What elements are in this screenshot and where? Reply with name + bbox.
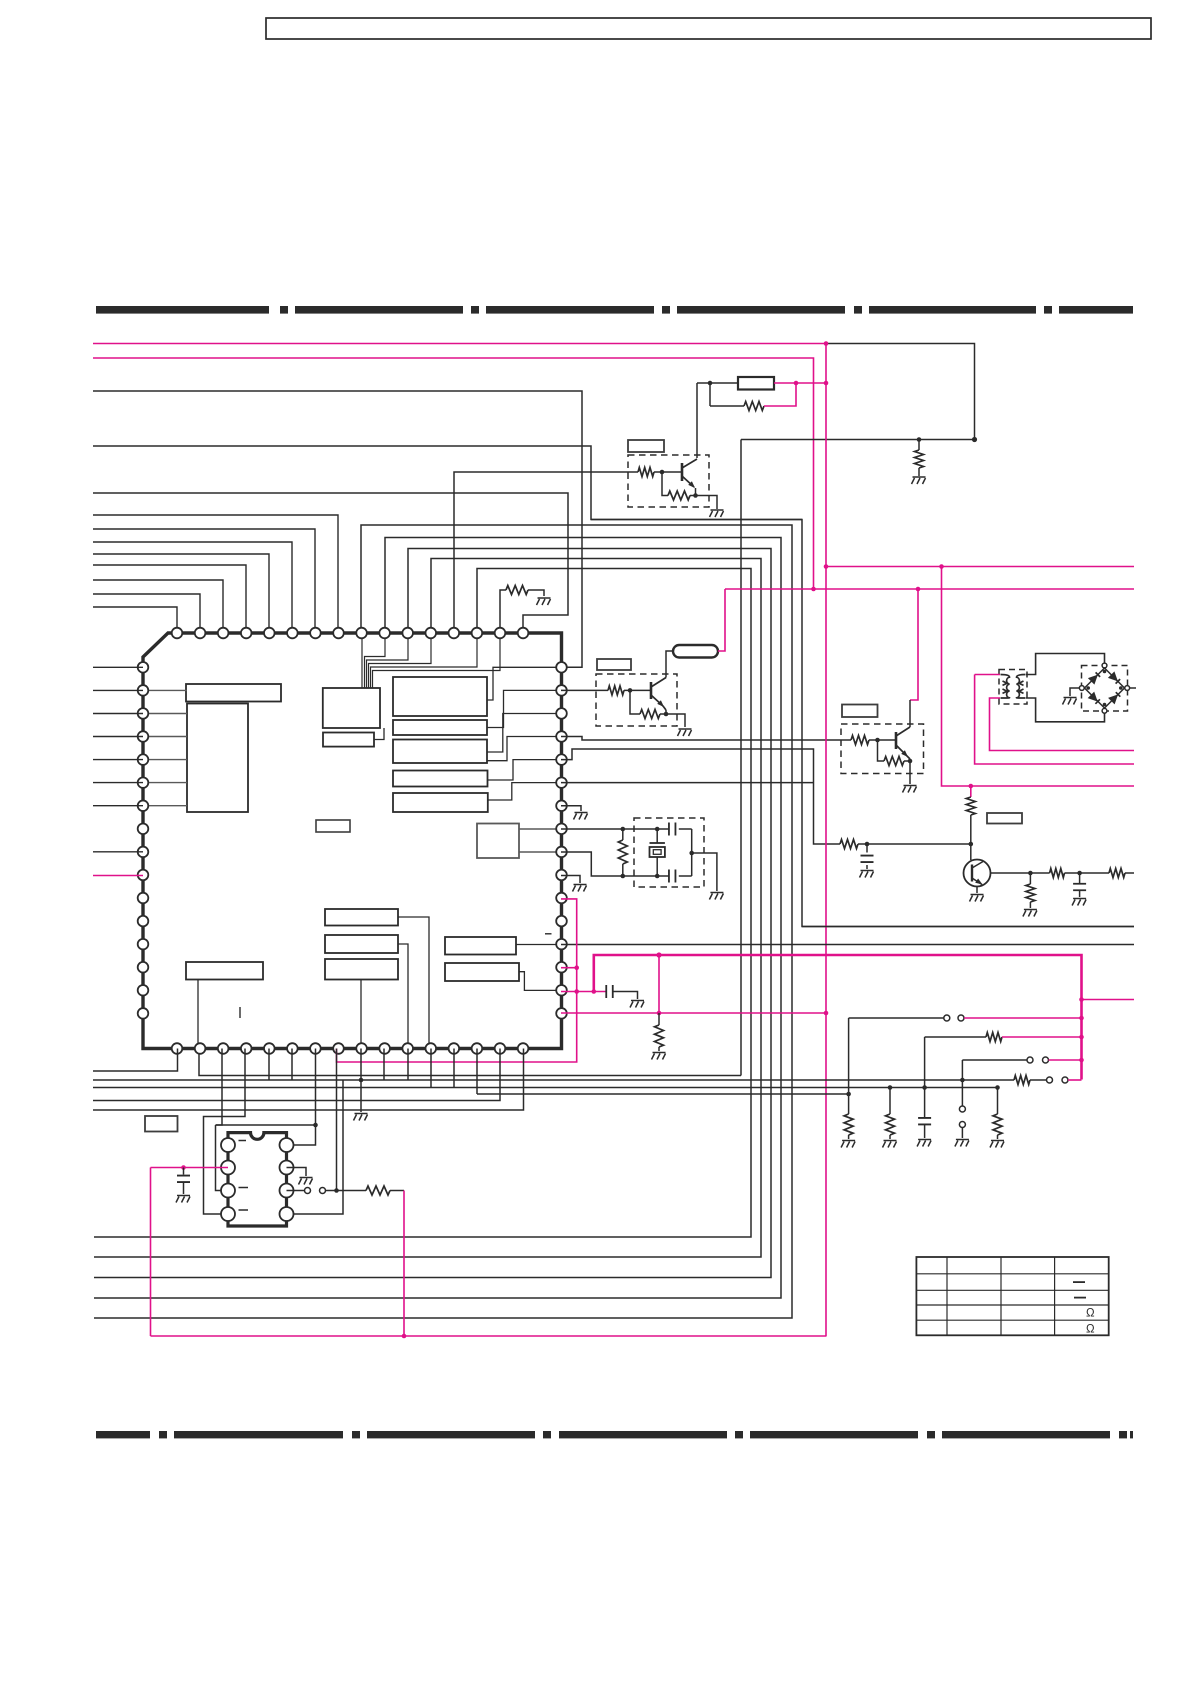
resistor Q3 base bbox=[851, 736, 869, 745]
ground bbox=[1063, 698, 1077, 705]
IC U2 DIP body bbox=[228, 1133, 287, 1226]
transistor Q3 dashed box bbox=[841, 724, 924, 774]
wire magenta parallel branch bbox=[764, 383, 796, 406]
U2 tick marks bbox=[239, 1140, 247, 1142]
ground bbox=[990, 1141, 1004, 1148]
U1 internal box upper-left bbox=[186, 684, 281, 702]
bridge diode D4 bbox=[1108, 694, 1118, 704]
wire left fan to top pin x223 bbox=[93, 580, 223, 633]
wire pin10R ground stub bbox=[561, 876, 580, 884]
transistor Q3 bbox=[895, 732, 898, 749]
resistor pull on pin16T area bbox=[500, 590, 506, 633]
wire pin9B stub down bbox=[383, 1049, 385, 1081]
wire magenta x659 drop bbox=[658, 955, 660, 1013]
wire pin7B to DIP pin R1 bbox=[287, 1049, 316, 1146]
capacitor output bbox=[1079, 873, 1081, 884]
label box Q4 bbox=[987, 813, 1022, 824]
wire left fan to top pin x246 bbox=[93, 565, 246, 633]
U1 internal lower boxes bbox=[325, 909, 398, 926]
U1 internal label box bbox=[316, 820, 350, 832]
ground bbox=[709, 893, 723, 900]
wire left fan to top pin x269 bbox=[93, 554, 269, 633]
U1 pins right column bbox=[556, 662, 567, 673]
wire magenta pin16R line bbox=[561, 1012, 826, 1014]
resistor Q4 collector bbox=[970, 786, 972, 797]
wire R-box left lead bbox=[697, 382, 738, 384]
transformer T1 windings bbox=[1001, 675, 1026, 699]
wire bus row y1110 to pin16B bbox=[93, 1049, 524, 1111]
wire bridge left to ground bbox=[1070, 688, 1079, 696]
switch shunt x962 bbox=[961, 1080, 963, 1106]
bridge rectifier dashed box bbox=[1082, 666, 1128, 712]
wire net routed down x591 to bus bbox=[93, 446, 1134, 927]
resistor Q1 base-emitter bbox=[662, 472, 668, 496]
ground bbox=[1072, 899, 1086, 906]
wire Q3 collector bbox=[909, 700, 911, 727]
ground bbox=[912, 477, 926, 484]
resistor output series 2 bbox=[1109, 869, 1125, 878]
label box Q2 bbox=[597, 659, 631, 670]
title box bbox=[266, 18, 1151, 39]
bridge junction marks bbox=[1103, 670, 1107, 674]
wire osc ground rail bbox=[691, 829, 693, 876]
U1 internal tall box bbox=[187, 704, 248, 813]
U1 internal cluster wires into box A bbox=[361, 633, 363, 688]
resistor Q2 base bbox=[608, 686, 624, 695]
resistor Q4 load bbox=[1029, 873, 1031, 884]
U1 internal box E bbox=[393, 771, 488, 787]
transistor Q2 dashed box bbox=[596, 674, 677, 726]
U1 pins left column bbox=[138, 662, 149, 673]
wire bus elbow pin10T to x781 bbox=[94, 538, 781, 1299]
wire pin6B stub down bbox=[291, 1049, 293, 1081]
ground bbox=[176, 1196, 190, 1203]
wire magenta x918 to Q3 collector bbox=[910, 589, 918, 700]
wire pin6R rail y783 bbox=[561, 782, 814, 784]
wire bus elbow pin15T to x751 bbox=[94, 569, 751, 1238]
resistor to ground on y440 rail bbox=[917, 437, 922, 442]
wire osc top net from pin8R bbox=[561, 828, 669, 830]
wire magenta resonator to x725 bbox=[718, 589, 725, 651]
IC U1 body bbox=[143, 633, 562, 1049]
U2 pins bbox=[221, 1138, 235, 1152]
wire magenta stub pin10L bbox=[93, 875, 143, 877]
wire net to pin1R via x582 bbox=[93, 391, 582, 667]
wire pin4R to Q3 base rail y740 bbox=[561, 737, 851, 741]
wire Q1 collector riser bbox=[696, 383, 698, 458]
U1 internal box A sub bbox=[323, 733, 374, 747]
wire magenta x404 drop bbox=[403, 1191, 405, 1337]
resistor DIP R3 series bbox=[366, 1186, 390, 1195]
wire Q2 emitter bbox=[663, 706, 666, 710]
ground bbox=[537, 598, 551, 605]
resistor shunt x890 bbox=[889, 1088, 891, 1115]
wire row3 switch bbox=[962, 1059, 1027, 1061]
wire magenta DIP L2 feed bbox=[151, 1167, 229, 1169]
resonator pill bbox=[673, 645, 718, 658]
wire magenta x826 main vertical bbox=[825, 344, 827, 1337]
wire collector feed top-right loop bbox=[825, 344, 975, 440]
U1 internal lower box links bbox=[197, 980, 199, 1049]
capacitor shunt x924 bbox=[924, 1088, 926, 1118]
transistor Q4 bbox=[964, 860, 991, 887]
wire magenta rail 2 bbox=[93, 358, 814, 589]
transformer T1 dashed box bbox=[999, 670, 1027, 705]
capacitor pin12R to ground bbox=[606, 985, 613, 998]
wire pin7R ground stub bbox=[561, 806, 581, 811]
wire net to top pin16 via x568 bbox=[93, 493, 568, 633]
ground bbox=[883, 1141, 897, 1148]
U1 internal tick marks bbox=[239, 1007, 241, 1018]
wire magenta y999 branch bbox=[1082, 999, 1135, 1001]
crystal X1 bbox=[656, 829, 658, 843]
U1 pins bottom row bbox=[172, 1043, 183, 1054]
wire Q4 output rail bbox=[991, 872, 1050, 874]
ground bbox=[917, 1140, 931, 1147]
U1 internal box B bbox=[393, 677, 487, 716]
capacitor DIP L2 to ground bbox=[183, 1168, 185, 1175]
wire magenta row3 bbox=[1049, 1059, 1082, 1061]
U1 internal links boxes to right pins bbox=[487, 667, 561, 700]
ground bbox=[970, 895, 984, 902]
wire bus elbow pin9T to x792 bbox=[94, 525, 792, 1318]
capacitor Q4 base bbox=[866, 844, 868, 853]
ground bbox=[841, 1141, 855, 1148]
wire pin5B stub down bbox=[268, 1049, 270, 1081]
wire magenta row y1080 end bbox=[1068, 1079, 1082, 1081]
wire pin15B elbow to y1094 bbox=[476, 1049, 478, 1095]
resistor Q2 base-emitter bbox=[630, 690, 640, 714]
wire Q1 base from pin13T bbox=[454, 472, 638, 633]
resistor pin16R to ground bbox=[658, 1013, 660, 1025]
wire osc bottom net from pin9R bbox=[561, 852, 669, 876]
wire pin10B stub down bbox=[407, 1049, 409, 1081]
U1 internal box A bbox=[323, 688, 380, 728]
U1 pins top row bbox=[172, 628, 183, 639]
ground bbox=[903, 786, 917, 793]
wire DIP R3 switch row bbox=[287, 1190, 305, 1192]
wire bus elbow pin11T to x771 bbox=[94, 549, 771, 1278]
wire bus row y1071 to pin1B bbox=[93, 1049, 178, 1072]
wire bridge right stub bbox=[1130, 687, 1136, 689]
wire rail y926 right bbox=[802, 926, 1134, 928]
U1 internal box F bbox=[393, 793, 488, 812]
wire stubs left pins bbox=[93, 666, 143, 668]
resistor parallel to R-box bbox=[709, 383, 711, 406]
wire magenta stub pin11R bbox=[561, 967, 577, 969]
capacitor osc top bbox=[669, 823, 676, 836]
ground bbox=[573, 885, 587, 892]
svg-text:Ω: Ω bbox=[1086, 1308, 1095, 1320]
wire magenta thick y955 rail bbox=[594, 955, 1082, 1080]
resistor shunt x848 bbox=[848, 1094, 850, 1114]
wire DIP R4 riser bbox=[287, 1080, 344, 1214]
wire Q3 emitter bbox=[907, 756, 910, 759]
wire pin13B stub down bbox=[453, 1049, 455, 1088]
ground bbox=[574, 813, 588, 820]
wire magenta y589 rail bbox=[725, 588, 1134, 590]
wire magenta pin12R with capacitor bbox=[561, 991, 606, 993]
wire transformer secondary top to bridge bbox=[1026, 654, 1105, 675]
resistor output series 1 bbox=[1050, 869, 1065, 878]
resistor shunt x361 with ground bbox=[360, 1049, 362, 1081]
wire y519 under Q1 box bbox=[591, 519, 802, 521]
ground bbox=[710, 510, 724, 517]
resistor Q3 base-emitter bbox=[878, 740, 885, 761]
wire R-box right lead magenta bbox=[774, 382, 826, 384]
bridge diode D1 bbox=[1088, 675, 1098, 685]
wire magenta row2 bbox=[1002, 1036, 1082, 1038]
wire VCC rail magenta upper bbox=[93, 343, 825, 345]
wire y440 rail bbox=[741, 439, 975, 441]
bridge terminals bbox=[1102, 663, 1107, 668]
svg-text:Ω: Ω bbox=[1086, 1324, 1095, 1336]
wire bus row y1100 to pin14B bbox=[93, 1049, 500, 1101]
wire pin5R rail y749 to x813 bbox=[561, 749, 840, 844]
transistor Q1 bbox=[681, 463, 684, 481]
wire DIP R2 ground stub bbox=[287, 1168, 307, 1177]
wire magenta transformer primary top bbox=[975, 674, 1000, 676]
wire pin4B to DIP pin L4 bbox=[204, 1049, 246, 1215]
wire bus row y1080 bbox=[93, 1079, 1014, 1081]
transistor Q1 dashed box bbox=[628, 455, 709, 507]
bridge diode D2 bbox=[1108, 671, 1118, 681]
wire left fan to top pin x338 bbox=[93, 515, 338, 633]
bottom section divider bar bbox=[96, 1431, 1133, 1438]
wire transformer secondary bottom to bridge bbox=[1026, 698, 1105, 722]
wire bus row y1094 bbox=[477, 1093, 849, 1095]
label box lower-left bbox=[145, 1116, 178, 1132]
wire magenta y566 branch bbox=[826, 566, 1134, 568]
wire Q4 base RC rail bbox=[840, 840, 858, 849]
wire bus elbow pin12T to x761 bbox=[94, 559, 761, 1258]
ground bbox=[955, 1140, 969, 1147]
ground bbox=[299, 1178, 313, 1185]
resistor Q1 base bbox=[638, 468, 654, 477]
ground bbox=[1023, 910, 1037, 917]
ground bbox=[630, 1001, 644, 1008]
table component values bbox=[916, 1257, 1108, 1335]
wire pin3B to DIP bbox=[216, 1049, 223, 1126]
bridge diode D3 bbox=[1088, 692, 1098, 702]
wire bottom bus line y1075 to x741 bbox=[199, 1049, 741, 1076]
wire magenta pin11 x576 net bbox=[337, 899, 577, 1062]
oscillator dashed box bbox=[634, 818, 704, 887]
wire magenta bottom rail y1336 bbox=[151, 1335, 827, 1337]
label box Q3 bbox=[842, 705, 878, 718]
wire magenta transformer primary bottom bbox=[990, 698, 1135, 751]
wire Q2 base from pin2R bbox=[561, 689, 608, 691]
wire Q4 emitter to ground bbox=[976, 887, 978, 894]
wire bus row y1087 bbox=[93, 1087, 998, 1089]
wire row2 with resistor bbox=[925, 1036, 986, 1038]
U1 internal box D bbox=[393, 740, 487, 764]
wire magenta x150 vertical bbox=[150, 1168, 152, 1337]
wire pin8B to switch node bbox=[336, 1049, 338, 1191]
wire bus x741 vertical bbox=[740, 440, 742, 1076]
resistor row y1080 bbox=[1014, 1076, 1030, 1085]
bridge rectifier diamond bbox=[1085, 668, 1125, 708]
U1 internal stubs from left pins bbox=[143, 689, 187, 691]
wire left fan to top pin x292 bbox=[93, 542, 292, 633]
wire pin12B stub down bbox=[430, 1049, 432, 1088]
wire left fan to top pin x200 bbox=[93, 594, 200, 633]
U1 internal box G bbox=[477, 824, 519, 859]
label box Q1 bbox=[628, 440, 664, 452]
wire left fan to top pin x315 bbox=[93, 529, 315, 633]
wire Q1 emitter bbox=[695, 488, 697, 496]
transistor Q2 bbox=[650, 682, 653, 699]
wire pin13R long rail y944 bbox=[561, 944, 1134, 946]
wire y1125 link bbox=[216, 1124, 316, 1126]
wire left fan to top pin x177 bbox=[93, 607, 177, 633]
ground bbox=[652, 1053, 666, 1060]
resistor osc bbox=[622, 829, 624, 840]
wire magenta x941 drop bbox=[942, 567, 1135, 787]
ground bbox=[678, 729, 692, 736]
U1 internal box C bbox=[393, 720, 487, 735]
capacitor osc bottom bbox=[669, 870, 676, 883]
wire Q2 collector to resonator bbox=[666, 651, 673, 678]
resistor shunt x997 bbox=[997, 1088, 999, 1115]
ground bbox=[860, 871, 874, 878]
ground bbox=[354, 1114, 368, 1121]
wire switch row1 bbox=[848, 1018, 850, 1094]
top section divider bar bbox=[96, 306, 1133, 314]
wire magenta row1 bbox=[964, 1017, 1082, 1019]
resistor R-box near Q1 bbox=[738, 377, 774, 390]
